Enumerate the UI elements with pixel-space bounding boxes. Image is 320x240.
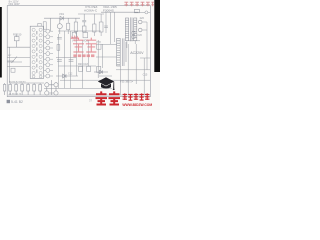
wire x102 [101,44,103,68]
svg-text:41 B5 B6 T5: 41 B5 B6 T5 [9,94,22,96]
bottom resistor row [9,83,42,95]
wire left vertical drop [9,47,11,83]
logo big char BAO1 [96,91,108,104]
plug pin circle P4 [132,35,135,38]
capacitor C4 [57,60,62,62]
wire transformer primary down [127,41,135,48]
resistor R4 [74,18,77,34]
left scan black bar [0,7,2,78]
wire y70 horizontal [116,69,150,71]
wire x64 [63,31,65,88]
terminal B7 [45,91,49,95]
capacitor C5 [69,60,74,62]
component box C16 [97,44,101,49]
wire bottom long bus [10,82,44,84]
wire top center bus y14 [78,13,104,15]
right scan black bar [154,0,160,72]
wire left mid rails [7,58,30,67]
wire x76 [75,31,77,76]
transistor VT1 [57,18,62,34]
wire y66 horizontal [58,65,96,67]
external pin pad circles column [46,29,50,78]
svg-text:WWW.88DZW.COM: WWW.88DZW.COM [122,103,152,107]
wire x120 vertical low [120,66,122,95]
svg-text:220: 220 [140,16,145,20]
logo graduation cap icon [98,77,115,90]
svg-text:R1 150: R1 150 [13,33,22,37]
plug pin circle P3 [132,31,135,34]
paper background [0,0,160,110]
logo big char BAO2 [109,91,121,104]
wire y57 mid [96,56,117,58]
svg-text:AC06A-C: AC06A-C [84,9,98,13]
wire y58 horizontal [140,57,150,59]
svg-text:5-41 B2: 5-41 B2 [11,100,23,104]
caption below frame [7,100,10,103]
wire x136 vertical low [135,44,137,84]
resistor leads [10,83,40,95]
resistor R1 (left of IC) [14,34,19,48]
wires right block [96,44,150,95]
svg-text:R20 C18: R20 C18 [78,63,88,66]
svg-text:C15: C15 [143,73,148,77]
wire bottom rail [8,94,150,96]
plug pin circle P2 [138,28,142,32]
wire y31 horizontal [58,30,101,32]
wire top right bus y12 [101,11,139,13]
wire left horizontal y47 [7,46,30,48]
resistor R13 [39,84,42,91]
IC U1 inner pin circles column A [32,28,35,78]
terminal circles 2x2 [45,80,58,95]
svg-text:AC220V: AC220V [130,51,144,55]
diode VD11 [94,70,108,74]
pin stub wires [44,31,53,76]
terminal wires [47,80,56,95]
wire y80 bus [60,76,150,80]
resistor R15 left margin [3,83,5,95]
IC U1 TA7698 body [30,26,43,78]
resistor R2 [38,23,41,26]
wire x128 vertical low [127,44,129,95]
svg-text:VD1: VD1 [59,12,65,16]
svg-text:C12: C12 [68,72,73,75]
diagonal adjust arrow [12,57,18,64]
choke T2 winding mid right [117,38,126,66]
resistor R10 [21,84,24,91]
wire left lower horizontal [7,60,14,62]
schematic border frame [7,6,150,97]
capacitor C9 bars [104,26,108,28]
transformer T1 primary winding [125,18,128,41]
diode VD10 [56,74,78,78]
resistor R11 [27,84,30,91]
wire plug stubs [142,22,147,70]
component box C18 [87,66,91,71]
svg-text:C20: C20 [137,34,142,37]
center vertical wires [56,31,102,88]
resistor R14 left lower [11,68,15,72]
component box VT3 [72,32,76,37]
terminal B8 [54,91,58,95]
svg-text:R5 R6 R7 R8 R9: R5 R6 R7 R8 R9 [9,82,26,84]
watermark top right text [124,2,154,6]
label group above IC [38,22,46,29]
wire under plug [128,40,140,42]
wire x114 [114,12,116,42]
wire x88 [87,40,89,66]
wire y57.6 horizontal [56,57,76,59]
resistor R7 on x58 [57,45,60,51]
resistor R5 [93,14,96,36]
component box R20 [79,66,83,71]
resistor R12 [33,84,36,91]
wire x58 [57,34,59,88]
wire x144 vertical low [143,58,145,95]
wire x82 [81,40,83,88]
IC U1 inner pin circles column B [39,28,42,78]
resistor R8 [9,84,12,91]
resistor R3 [67,18,70,34]
wire center bottom bus y88 [44,87,112,89]
wire x110 [109,12,111,44]
transformer T1 secondary winding [134,18,137,41]
transformer T1 core [130,17,132,41]
wire to frame right [139,11,150,13]
top component label row [84,5,117,13]
logo text DianZiXiaZaiZhan [123,93,150,100]
wire x106 [105,12,107,33]
svg-text:VD1 4007: VD1 4007 [8,2,20,6]
vertical wires mid top [106,12,115,44]
wire x98 [97,40,99,78]
wire y44 to choke [101,43,117,45]
capacitor C21 top right [134,9,139,12]
component box C17 [97,66,101,72]
resistor R9 [15,84,18,91]
node circle top right [145,11,148,14]
capacitor C1 [43,22,46,29]
resistor R6 [99,14,103,36]
capacitor C2 with lead [82,14,86,32]
capacitor C3 [57,37,62,39]
diode VD1 [44,16,80,31]
stamp crown icon [71,35,79,39]
component box VT4 [83,32,88,37]
IC U1 part number marks [35,31,38,73]
terminal B5 [45,83,49,87]
plug pin circle P1 [138,20,142,24]
caption text above frame top-left [8,0,20,6]
terminal B6 [54,83,58,87]
wire x70 [69,31,71,88]
